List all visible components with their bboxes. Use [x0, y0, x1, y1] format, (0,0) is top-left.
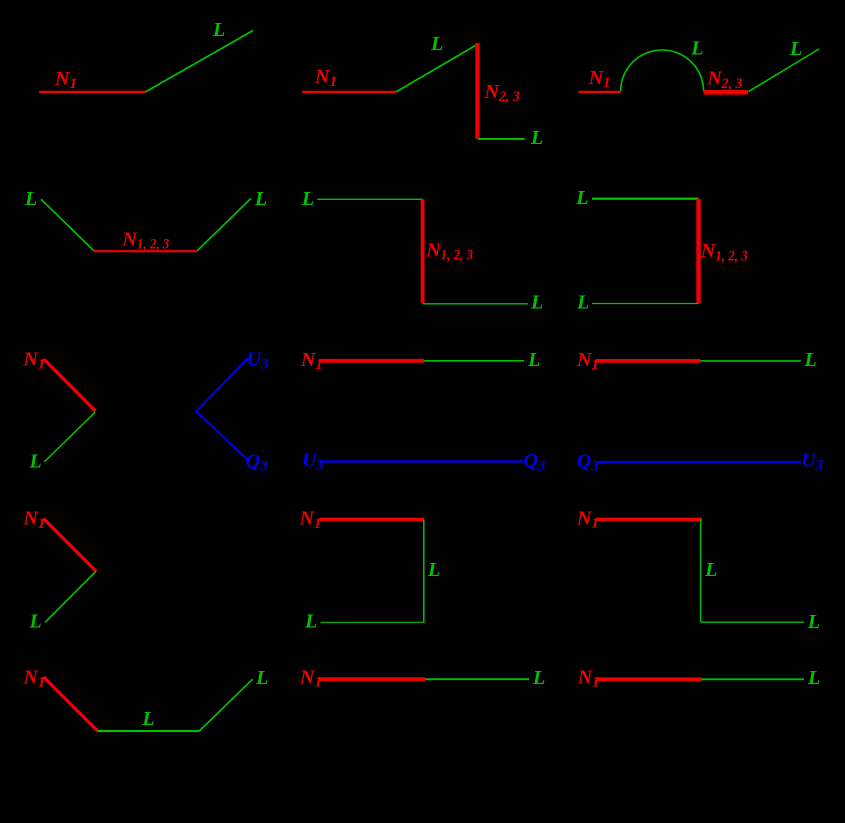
- svg-text:L: L: [807, 611, 820, 633]
- wire: L green rising segment (r5c1): [199, 679, 252, 731]
- wire: L green rising segment (r2c1): [197, 199, 251, 251]
- wire: L green horizontal segment (r3c3): [701, 360, 801, 362]
- svg-text:L: L: [575, 187, 588, 209]
- wire: L green vertical segment (r4c3): [700, 519, 702, 622]
- svg-text:L: L: [804, 349, 817, 371]
- svg-text:L: L: [29, 450, 42, 472]
- wire: N1 thick red falling segment (r4c1): [44, 519, 97, 572]
- wire: N1 red horizontal segment (r1c2): [302, 91, 397, 93]
- wire: N2,3 thick red vertical segment (r1c2): [475, 43, 479, 139]
- wire: Q3-U3 blue horizontal segment (r3c3): [597, 461, 801, 463]
- wire: L green top horizontal segment (r2c2): [317, 198, 423, 200]
- wire: N1 red horizontal segment (r1c3): [579, 91, 621, 93]
- svg-text:L: L: [255, 667, 268, 689]
- wire: N1 thick red horizontal segment (r4c3): [596, 518, 703, 522]
- svg-text:L: L: [212, 19, 225, 41]
- wire: L green horizontal segment (r1c2): [478, 138, 525, 140]
- wire: L green rising segment (r1c1): [146, 31, 254, 92]
- wire: N1,2,3 thick red vertical segment (r2c2): [421, 199, 425, 303]
- svg-text:L: L: [527, 349, 540, 371]
- svg-text:L: L: [690, 38, 703, 60]
- wire: L green semicircular arc (r1c3): [621, 50, 704, 91]
- wire: N1 thick red horizontal segment (r5c3): [596, 677, 701, 681]
- svg-text:L: L: [530, 127, 543, 149]
- wire: N1 thick red horizontal segment (r3c2): [319, 359, 424, 363]
- svg-text:L: L: [789, 38, 802, 60]
- svg-text:L: L: [807, 667, 820, 689]
- wire: L green bottom horizontal segment (r4c3): [701, 621, 804, 623]
- svg-text:L: L: [141, 708, 154, 730]
- svg-text:L: L: [254, 188, 267, 210]
- svg-text:L: L: [576, 292, 589, 314]
- wire: N1 thick red horizontal segment (r4c2): [320, 518, 425, 522]
- wire: N2,3 thick red horizontal segment (r1c3): [704, 90, 749, 95]
- wire: L green vertical segment (r4c2): [423, 519, 425, 622]
- wire: L green falling segment (r3c1): [44, 412, 95, 462]
- svg-text:L: L: [24, 188, 37, 210]
- wire: N1 red horizontal segment (r1c1): [39, 91, 146, 93]
- svg-text:L: L: [427, 559, 440, 581]
- wire: L green horizontal segment (r5c1): [98, 730, 200, 732]
- wire: N1 thick red horizontal segment (r3c3): [596, 359, 701, 363]
- wire: L green horizontal segment (r3c2): [424, 360, 524, 362]
- svg-text:L: L: [532, 667, 545, 689]
- wire: L green rising segment (r1c3): [749, 49, 820, 92]
- wire: L green falling segment (r2c1): [41, 199, 94, 251]
- wire: L green bottom horizontal segment (r4c2): [321, 621, 425, 623]
- svg-text:L: L: [29, 610, 42, 632]
- wire: Q3 blue falling segment (r3c1): [196, 411, 250, 462]
- wire: N1 thick red falling segment (r5c1): [44, 677, 98, 731]
- wire: N1 thick red horizontal segment (r5c2): [320, 677, 425, 681]
- svg-text:L: L: [704, 559, 717, 581]
- wire: L green falling segment (r4c1): [45, 572, 96, 623]
- wire: L green bottom horizontal segment (r2c3): [592, 303, 699, 305]
- svg-text:L: L: [530, 292, 543, 314]
- wire: L green rising segment (r1c2): [397, 44, 479, 92]
- wire: L green horizontal segment (r5c3): [701, 678, 804, 680]
- svg-text:L: L: [304, 611, 317, 633]
- wire: L green top horizontal segment thick (r2c3): [592, 197, 699, 199]
- svg-text:L: L: [430, 33, 443, 55]
- wire: L green bottom horizontal segment (r2c2): [423, 303, 528, 305]
- wire: L green horizontal segment (r5c2): [426, 678, 530, 680]
- wire: N1 thick red falling segment (r3c1): [44, 359, 96, 411]
- wire: N1,2,3 thick red vertical segment (r2c3): [696, 199, 700, 304]
- wire: U3 blue rising segment (r3c1): [196, 358, 248, 411]
- svg-text:L: L: [301, 188, 314, 210]
- wire: N1,2,3 red horizontal segment (r2c1): [94, 250, 198, 252]
- wire: U3-Q3 blue horizontal segment (r3c2): [320, 460, 523, 462]
